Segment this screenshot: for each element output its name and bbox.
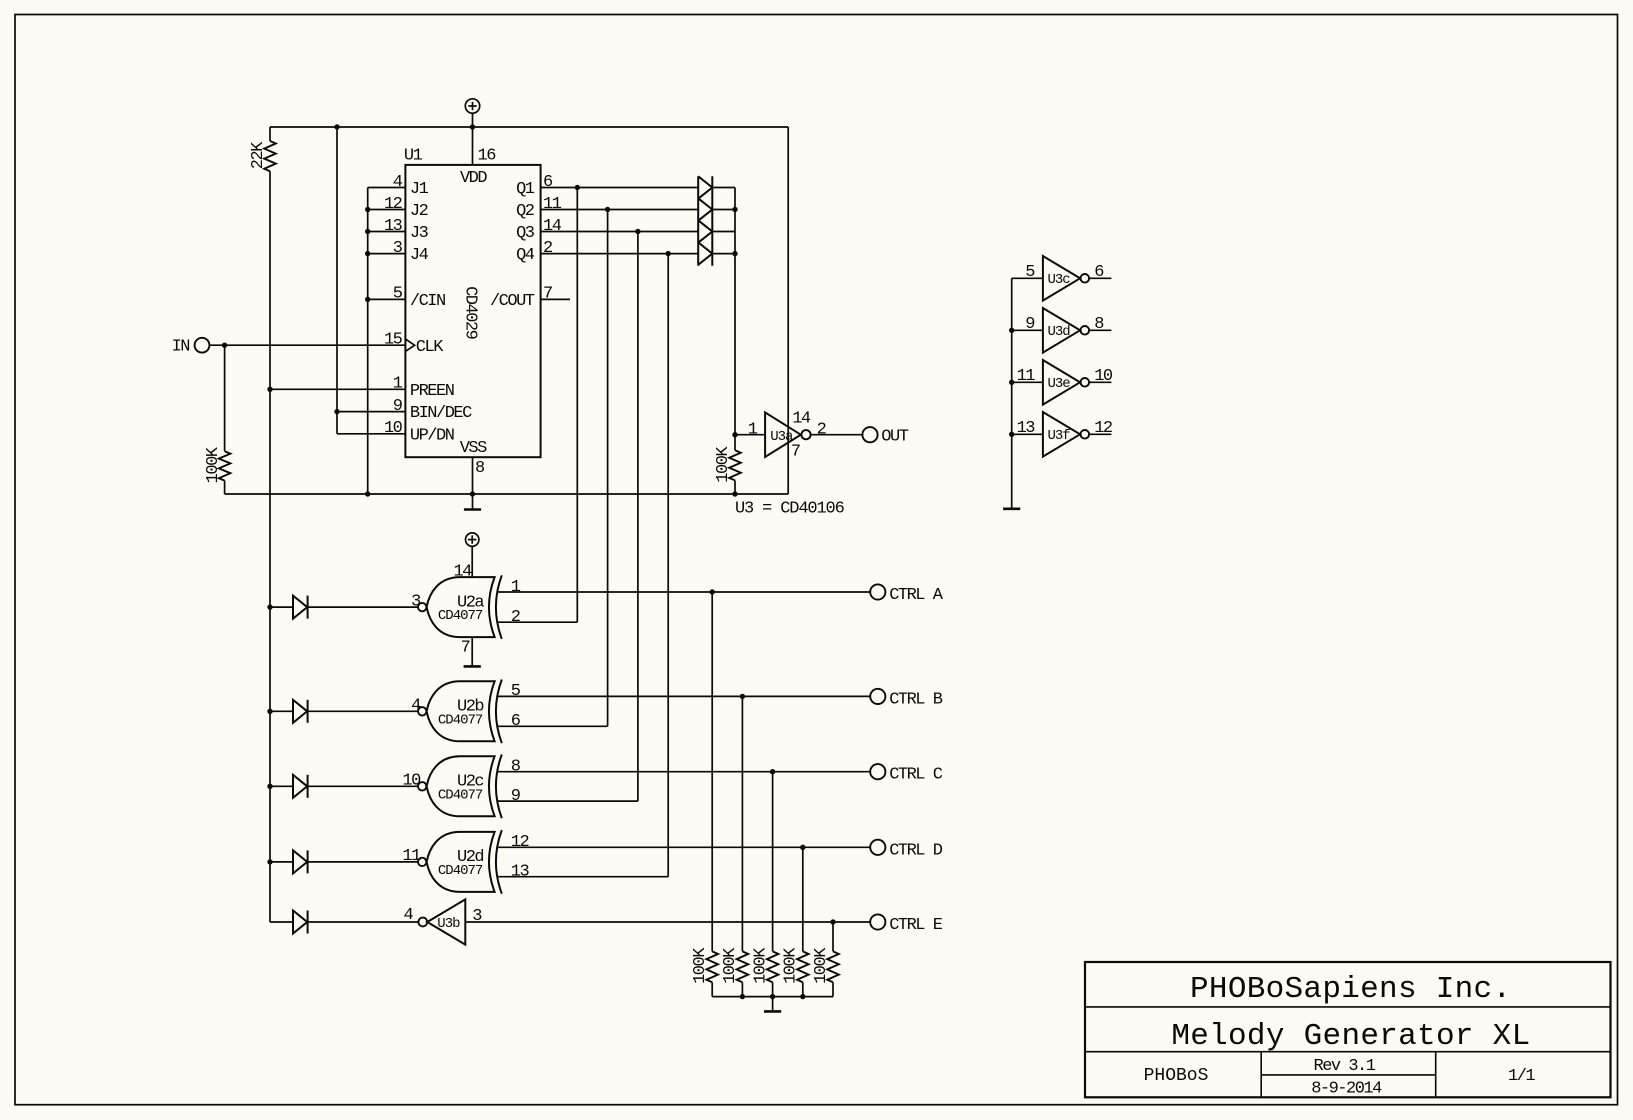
svg-text:7: 7	[791, 443, 800, 462]
resistor 100K (IN pulldown)	[224, 345, 226, 451]
svg-text:CTRL D: CTRL D	[889, 841, 943, 860]
wire: diode to U2d output bubble	[308, 861, 418, 863]
wire: Q1 vertical to gate input	[576, 188, 578, 623]
junction: diode bus / U3a input / 100K	[732, 432, 737, 437]
junction + pulldown vertical CTRL E	[830, 919, 835, 924]
power symbol (+) top	[465, 99, 479, 113]
svg-text:4: 4	[393, 173, 403, 192]
pin 3 J4 stub	[368, 253, 406, 255]
svg-text:U3b: U3b	[437, 916, 460, 932]
diode at row 209.5	[698, 198, 712, 220]
op IC U1 CD4029 body	[405, 165, 540, 457]
svg-text:100K: 100K	[782, 947, 801, 984]
svg-text:U3e: U3e	[1048, 376, 1071, 392]
svg-text:1: 1	[748, 421, 758, 440]
svg-text:6: 6	[543, 173, 553, 192]
svg-text:16: 16	[478, 146, 497, 165]
svg-text:6: 6	[511, 712, 521, 731]
pin 16 VDD stub	[472, 127, 474, 165]
svg-text:100K: 100K	[714, 446, 733, 483]
xnor gate U2c CD4077	[418, 782, 426, 790]
wire: U2a input pin 2 from Q	[497, 621, 578, 623]
svg-text:CTRL E: CTRL E	[889, 916, 943, 935]
clock triangle pin 15	[405, 339, 414, 351]
wire: U2a input pin 1 (CTRL)	[497, 591, 871, 593]
svg-text:Rev 3.1: Rev 3.1	[1314, 1057, 1376, 1076]
svg-text:13: 13	[384, 217, 403, 236]
port CTRL B	[870, 689, 885, 704]
svg-text:100K: 100K	[751, 947, 770, 984]
diode at row 187.5	[698, 176, 712, 198]
svg-text:CTRL C: CTRL C	[889, 766, 943, 785]
svg-text:1: 1	[511, 578, 521, 597]
junction + pulldown vertical CTRL B	[740, 694, 745, 699]
svg-text:100K: 100K	[691, 947, 710, 984]
pin 6 Q1 wire	[541, 187, 699, 189]
svg-text:BIN/DEC: BIN/DEC	[410, 404, 472, 423]
diode into U3b	[270, 921, 293, 923]
svg-text:12: 12	[1094, 419, 1112, 438]
wire: U2b input pin 5 (CTRL)	[497, 695, 871, 697]
wire: Q3 vertical to gate input	[637, 232, 639, 802]
svg-text:22K: 22K	[249, 141, 268, 169]
resistor 100K (CTRL C pulldown)	[767, 951, 779, 982]
port CTRL A	[870, 584, 885, 599]
title block	[1085, 962, 1611, 1097]
svg-text:3: 3	[411, 592, 421, 611]
wire: diode to U2c output bubble	[308, 785, 418, 787]
resistor 100K (CTRL A pulldown)	[706, 951, 718, 982]
wire: VDD top rail	[472, 113, 474, 127]
svg-text:/COUT: /COUT	[490, 292, 535, 311]
svg-text:1/1: 1/1	[1508, 1067, 1535, 1086]
svg-text:5: 5	[1025, 263, 1035, 282]
pin 4 J1 stub	[368, 187, 406, 189]
wire: 22K down to diode bus (left vertical)	[269, 171, 271, 922]
wire: U2c input pin 9 from Q	[497, 800, 638, 802]
wire: diode to U2b output bubble	[308, 710, 418, 712]
svg-text:Melody Generator XL: Melody Generator XL	[1171, 1019, 1530, 1054]
svg-text:CD4077: CD4077	[438, 608, 483, 624]
svg-text:PREEN: PREEN	[410, 382, 454, 401]
svg-text:11: 11	[1017, 367, 1036, 386]
svg-text:PHOBoS: PHOBoS	[1144, 1066, 1209, 1086]
diode into U2b	[270, 710, 293, 712]
wire: diode D1 cathode to common bus	[712, 187, 735, 189]
diode at row 253.6	[698, 242, 712, 264]
svg-text:IN: IN	[172, 338, 190, 357]
wire: diode D3 cathode to common bus	[712, 231, 735, 233]
svg-text:U3f: U3f	[1048, 428, 1071, 444]
svg-text:U3c: U3c	[1048, 272, 1071, 288]
pin 7 /COUT stub	[541, 298, 570, 300]
svg-text:J3: J3	[410, 224, 429, 243]
svg-text:J2: J2	[410, 202, 428, 221]
svg-text:2: 2	[543, 239, 552, 258]
xnor gate U2d CD4077	[418, 858, 426, 866]
svg-text:15: 15	[384, 331, 403, 350]
wire: PREEN pin 1	[270, 388, 405, 390]
resistor 100K (CTRL E pulldown)	[827, 951, 839, 982]
pin 8 VSS stub	[472, 457, 474, 494]
svg-text:8: 8	[511, 758, 521, 777]
wire: ground rail	[225, 493, 789, 495]
inverter U3c	[1012, 277, 1043, 279]
svg-text:Q3: Q3	[516, 224, 535, 243]
ground symbol resistor network	[772, 997, 774, 1012]
svg-text:100K: 100K	[721, 947, 740, 984]
svg-text:7: 7	[461, 638, 470, 657]
wire: BIN/DEC pin 9	[337, 411, 405, 413]
pin 12 J2 stub	[368, 209, 406, 211]
junction: J chain to ground rail	[365, 491, 370, 496]
svg-text:2: 2	[511, 608, 520, 627]
diode into U2a	[270, 606, 293, 608]
wire: U3c-f input chain	[1011, 278, 1013, 509]
svg-text:CTRL A: CTRL A	[889, 586, 944, 605]
inverter U3f	[1012, 433, 1043, 435]
wire: to U3a input	[735, 434, 765, 436]
wire: Q2 vertical to gate input	[607, 210, 609, 727]
svg-text:PHOBoSapiens Inc.: PHOBoSapiens Inc.	[1190, 972, 1511, 1007]
inverter U3d	[1012, 329, 1043, 331]
svg-text:14: 14	[792, 410, 811, 429]
svg-text:8: 8	[1094, 315, 1104, 334]
svg-text:11: 11	[402, 847, 421, 866]
svg-text:CD4029: CD4029	[460, 286, 479, 340]
diode into U2c	[270, 785, 293, 787]
svg-text:9: 9	[511, 787, 521, 806]
port CTRL E	[870, 914, 885, 929]
inverter U3a	[765, 412, 801, 457]
svg-text:U3d: U3d	[1048, 324, 1071, 340]
diodes D1-D4 bank	[697, 176, 699, 266]
junction: rail / pin16	[470, 124, 475, 129]
wire: U2b input pin 6 from Q	[497, 725, 608, 727]
port CTRL C	[870, 764, 885, 779]
svg-text:CD4077: CD4077	[438, 712, 483, 728]
svg-text:U1: U1	[404, 146, 423, 165]
svg-text:CD4077: CD4077	[438, 863, 483, 879]
xnor gate U2b CD4077	[418, 707, 426, 715]
svg-text:J1: J1	[410, 180, 429, 199]
svg-text:8: 8	[475, 459, 485, 478]
svg-text:Q1: Q1	[516, 180, 535, 199]
diode at row 231.5	[698, 220, 712, 242]
wire: U3a out to OUT port	[811, 434, 863, 436]
resistor 22K	[269, 127, 271, 141]
inverter U3e	[1012, 381, 1043, 383]
wire: BIN/DEC + UP/DN feed line	[336, 127, 338, 434]
svg-text:/CIN: /CIN	[410, 292, 445, 311]
junction + pulldown vertical CTRL A	[710, 589, 715, 594]
svg-text:11: 11	[543, 195, 562, 214]
port IN	[195, 338, 210, 353]
svg-text:13: 13	[511, 863, 530, 882]
wire: IN to CLK pin 15	[209, 344, 405, 346]
port OUT	[862, 427, 877, 442]
wire: diode D4 cathode to common bus	[712, 253, 735, 255]
pin 14 Q3 wire	[541, 231, 699, 233]
svg-text:9: 9	[393, 397, 403, 416]
svg-text:9: 9	[1025, 315, 1035, 334]
svg-text:OUT: OUT	[881, 427, 908, 446]
svg-text:100K: 100K	[812, 947, 831, 984]
wire: resistor bottom rail	[712, 996, 833, 998]
ground for U2a pin 7	[471, 637, 473, 666]
junction: rail / BIN-UP line	[334, 124, 339, 129]
svg-text:Q4: Q4	[516, 246, 535, 265]
wire: J-pin chain vertical	[367, 188, 369, 495]
svg-text:4: 4	[403, 906, 413, 925]
svg-text:8-9-2014: 8-9-2014	[1311, 1079, 1382, 1098]
svg-text:U3a: U3a	[770, 429, 793, 445]
junction + pulldown vertical CTRL D	[800, 845, 805, 850]
svg-text:3: 3	[472, 907, 482, 926]
svg-text:4: 4	[411, 697, 421, 716]
svg-text:10: 10	[1094, 367, 1113, 386]
wire: diode to U2a output bubble	[308, 606, 418, 608]
diode into U2d	[270, 861, 293, 863]
svg-text:UP/DN: UP/DN	[410, 426, 454, 445]
ground symbol main	[472, 494, 474, 510]
junction + pulldown vertical CTRL C	[770, 769, 775, 774]
wire: U3b out to CTRL E	[465, 921, 870, 923]
resistor 100K (U3a input pulldown)	[734, 435, 736, 451]
svg-text:12: 12	[384, 195, 402, 214]
pin 2 Q4 wire	[541, 253, 699, 255]
wire: power drop right side	[787, 127, 789, 494]
svg-text:7: 7	[543, 285, 552, 304]
svg-text:J4: J4	[410, 246, 429, 265]
svg-text:14: 14	[453, 563, 472, 582]
svg-text:14: 14	[543, 217, 562, 236]
wire: U2c input pin 8 (CTRL)	[497, 771, 871, 773]
svg-text:10: 10	[402, 772, 421, 791]
junction: pin8 to rail	[470, 491, 475, 496]
svg-text:6: 6	[1094, 263, 1104, 282]
wire: Q4 vertical to gate input	[667, 254, 669, 877]
svg-text:100K: 100K	[204, 446, 223, 483]
wire: U2d input pin 12 (CTRL)	[497, 846, 871, 848]
svg-text:CTRL B: CTRL B	[889, 690, 943, 709]
svg-text:Q2: Q2	[516, 202, 534, 221]
wire: U2d input pin 13 from Q	[497, 876, 669, 878]
svg-text:VSS: VSS	[460, 439, 487, 458]
svg-text:U3 = CD40106: U3 = CD40106	[735, 500, 845, 519]
svg-text:CD4077: CD4077	[438, 787, 483, 803]
wire: diode D2 cathode to common bus	[712, 209, 735, 211]
port CTRL D	[870, 840, 885, 855]
pin 13 J3 stub	[368, 231, 406, 233]
xnor gate U2a CD4077	[418, 603, 426, 611]
svg-text:3: 3	[393, 239, 403, 258]
power symbol (+) for U2a pin 14	[466, 533, 479, 546]
svg-text:1: 1	[393, 375, 403, 394]
pin 11 Q2 wire	[541, 209, 699, 211]
svg-text:10: 10	[384, 419, 403, 438]
svg-text:VDD: VDD	[460, 169, 487, 188]
svg-text:CLK: CLK	[416, 338, 444, 357]
inverter U3b (mirrored)	[418, 918, 427, 927]
pin 5 /CIN stub	[368, 298, 406, 300]
resistor 100K (CTRL B pulldown)	[737, 951, 749, 982]
svg-text:5: 5	[393, 285, 403, 304]
svg-text:2: 2	[817, 421, 826, 440]
svg-text:13: 13	[1017, 419, 1036, 438]
resistor 100K (CTRL D pulldown)	[797, 951, 809, 982]
svg-text:12: 12	[511, 833, 529, 852]
svg-text:5: 5	[511, 682, 521, 701]
